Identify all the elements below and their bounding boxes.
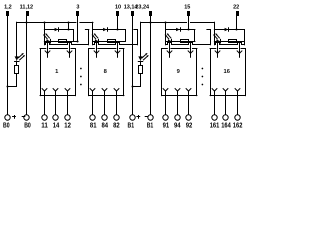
ellipsis dots between modules 1 and 8	[80, 68, 82, 70]
wire relay K8 to terminal 81	[92, 96, 94, 115]
module 1 input box left edge	[44, 30, 46, 45]
relay K8 contact fork 81	[90, 89, 92, 91]
svg-text:11,12: 11,12	[20, 4, 33, 10]
wire pin 3 to module 1 input	[77, 16, 79, 41]
svg-text:91: 91	[163, 123, 170, 130]
terminal circle 164	[223, 115, 228, 120]
wire resistor RP1 to B0+ rail	[8, 74, 17, 87]
module 1 divider wire	[73, 30, 75, 42]
bus A segment	[17, 22, 76, 24]
wire relay K9 to terminal 92	[188, 96, 190, 115]
module 9 input box right edge	[210, 30, 212, 45]
resistor R9	[181, 40, 189, 43]
terminal circle 82	[114, 115, 119, 120]
connector pin 3	[76, 11, 79, 16]
module 9 input box top edge right segment	[207, 29, 210, 31]
module 9 inner wire	[166, 41, 195, 43]
module 1 input box top edge	[44, 29, 73, 31]
terminal circle 162	[235, 115, 240, 120]
module 8 input box bottom edge	[93, 43, 132, 45]
svg-text:84: 84	[102, 123, 109, 130]
relay K9 contact fork 94	[175, 89, 177, 91]
module 8 inner wire	[93, 41, 126, 43]
wire pin 13,14 to terminal B1+	[132, 16, 134, 115]
relay K1 contact fork 12	[65, 89, 67, 91]
module 1 coil plug contact right	[67, 51, 69, 53]
terminal circle 84	[102, 115, 107, 120]
junction bus A / module 1 stub	[44, 22, 46, 24]
relay K9 contact fork 91	[163, 89, 165, 91]
junction module 1 inner wire	[77, 41, 79, 43]
module 9 divider wire	[194, 30, 196, 42]
svg-text:10: 10	[115, 4, 121, 10]
relay K1 contact fork 14	[53, 89, 55, 91]
svg-text:164: 164	[221, 123, 231, 130]
diode D1	[55, 28, 59, 32]
svg-text:162: 162	[233, 123, 243, 130]
terminal circle 92	[186, 115, 191, 120]
wire bus A down to module 8 box	[92, 22, 94, 29]
wire relay K16 to terminal 161	[214, 96, 216, 115]
junction module 8 top edge	[117, 29, 119, 31]
svg-text:92: 92	[186, 123, 193, 130]
wire pin 23,24 to terminal B1-	[150, 16, 152, 115]
module 8 coil wire left	[96, 42, 98, 52]
junction B0+ / indicator chain	[7, 86, 9, 88]
LED 9 (channel indicator)	[168, 39, 172, 43]
wire pin 11,12 to terminal B0-	[26, 16, 28, 115]
wire bus B down to module 16 box	[214, 22, 216, 29]
svg-text:1,2: 1,2	[4, 4, 12, 10]
module 8 coil wire right	[117, 42, 119, 52]
terminal circle 81	[90, 115, 95, 120]
junction bus A / module 1 top edge stub	[68, 22, 70, 24]
module 8 divider wire	[125, 30, 127, 42]
LED PWR1 (supply indicator)	[15, 56, 19, 60]
bus B segment after crossover	[191, 22, 215, 24]
terminal circle 14	[53, 115, 58, 120]
connector pin 22	[236, 11, 239, 16]
svg-text:B0: B0	[24, 123, 31, 130]
module 1 input box top edge right segment	[85, 29, 88, 31]
module 8 input box bottom edge right segment	[133, 44, 137, 46]
wire pin 1,2 to terminal B0+	[7, 16, 9, 115]
terminal circle B1-	[148, 115, 153, 120]
svg-text:94: 94	[174, 123, 181, 130]
svg-text:14: 14	[53, 123, 60, 130]
module 1 coil wire left	[47, 42, 49, 52]
minus sign at B1	[145, 116, 148, 118]
module 1 coil plug contact left	[45, 51, 47, 53]
module 8 coil plug contact right	[115, 51, 117, 53]
svg-text:B1: B1	[147, 123, 154, 130]
connector pin 15	[187, 11, 190, 16]
module 16 input box right edge	[244, 30, 246, 45]
junction B1+ / indicator chain	[132, 86, 134, 88]
bus A segment after crossover	[80, 22, 93, 24]
terminal circle B0-	[24, 115, 29, 120]
terminal circle 161	[212, 115, 217, 120]
wire relay K1 to terminal 12	[67, 96, 69, 115]
module 9 input box left edge	[165, 30, 167, 45]
wire relay K1 to terminal 11	[44, 96, 46, 115]
module 8 input box left edge	[92, 30, 94, 45]
bus B corner down to indicator chain	[140, 22, 142, 56]
resistor R1	[59, 40, 67, 43]
connector pin 13,14	[131, 11, 134, 16]
resistor R16	[229, 40, 237, 43]
junction bus B / B1- wire	[150, 22, 152, 24]
svg-text:23,24: 23,24	[135, 4, 150, 10]
wire resistor RP2 to B1+ rail	[133, 74, 141, 87]
module 16 input box left edge	[214, 30, 216, 45]
wire stub bus A to module 1 top edge	[68, 22, 70, 29]
module 16 coil plug contact right	[237, 51, 239, 53]
module 1 input box right edge	[88, 30, 90, 45]
svg-text:22: 22	[233, 4, 239, 10]
junction bus A / B0- wire	[26, 22, 28, 24]
module 9 input box bottom edge	[166, 43, 211, 45]
svg-text:82: 82	[113, 123, 120, 130]
resistor RP2	[139, 66, 143, 74]
svg-text:11: 11	[41, 123, 48, 130]
svg-text:16: 16	[223, 69, 230, 75]
wire relay K1 to terminal 14	[55, 96, 57, 115]
connector pin 23,24	[149, 11, 152, 16]
bus A corner down to indicator chain	[16, 22, 18, 56]
module 16 coil plug contact left	[215, 51, 217, 53]
wire LED to resistor	[16, 61, 18, 65]
module 9 coil plug contact left	[167, 51, 169, 53]
relay K8 contact fork 82	[114, 89, 116, 91]
module 16 coil wire left	[217, 42, 219, 52]
svg-text:3: 3	[76, 4, 79, 10]
module 1 coil wire right	[69, 42, 71, 52]
module 9 coil wire right	[190, 42, 192, 52]
relay K16 contact fork 164	[223, 89, 225, 91]
junction module 1 top edge	[68, 29, 70, 31]
module 8 input box right edge	[137, 30, 139, 45]
connector pin 1,2	[6, 11, 9, 16]
plus sign at B1	[137, 116, 140, 118]
relay K9 contact fork 92	[186, 89, 188, 91]
module 16 input box top edge	[214, 29, 244, 31]
relay K9 box	[162, 48, 168, 50]
relay K16 contact fork 161	[212, 89, 214, 91]
wire relay K8 to terminal 82	[116, 96, 118, 115]
terminal circle 11	[42, 115, 47, 120]
relay K8 contact fork 84	[102, 89, 104, 91]
wire pin 15 to module 9 top edge	[188, 16, 190, 30]
svg-text:12: 12	[64, 123, 71, 130]
junction module 9 top edge	[188, 29, 190, 31]
plus sign at B0	[13, 116, 16, 118]
connector pin 10	[116, 11, 119, 16]
wire relay K8 to terminal 84	[104, 96, 106, 115]
relay K16 box	[210, 48, 216, 50]
wire relay K9 to terminal 94	[177, 96, 179, 115]
wire bus A to module 1 box corner	[44, 22, 46, 29]
diode D9	[176, 28, 180, 32]
module 9 input box top edge	[166, 29, 195, 31]
svg-text:15: 15	[184, 4, 190, 10]
module 16 inner wire	[214, 41, 244, 43]
svg-text:161: 161	[210, 123, 220, 130]
terminal circle 12	[65, 115, 70, 120]
module 8 input box top edge	[93, 29, 126, 31]
bus B segment	[141, 22, 187, 24]
module 1 input box bottom edge	[45, 43, 89, 45]
terminal circle B0+	[5, 115, 10, 120]
connector pin 11,12	[26, 11, 29, 16]
wire relay K16 to terminal 164	[225, 96, 227, 115]
wire pin 22 to module 16 top edge	[236, 16, 238, 30]
module 16 coil wire right	[239, 42, 241, 52]
svg-text:B1: B1	[128, 123, 135, 130]
terminal circle 94	[175, 115, 180, 120]
terminal circle B1+	[130, 115, 135, 120]
svg-text:81: 81	[90, 123, 97, 130]
minus sign at B0	[22, 116, 25, 118]
ellipsis dots between modules 9 and 16	[202, 68, 204, 70]
wire relay K16 to terminal 162	[237, 96, 239, 115]
module 9 coil wire left	[169, 42, 171, 52]
resistor R8	[108, 40, 116, 43]
relay K1 contact fork 11	[42, 89, 44, 91]
svg-text:B0: B0	[3, 123, 10, 130]
wire pin 10 to module 8 top edge	[117, 16, 119, 30]
LED 16 (channel indicator)	[216, 39, 220, 43]
junction module 16 top edge	[236, 29, 238, 31]
wire relay K9 to terminal 91	[165, 96, 167, 115]
junction bus B / module 9 stub	[165, 22, 167, 24]
diode D8	[103, 28, 107, 32]
module 9 coil plug contact right	[188, 51, 190, 53]
diode D16	[225, 28, 229, 32]
LED PWR2 (supply indicator)	[138, 56, 142, 60]
module 16 input box bottom edge	[215, 43, 245, 45]
module 1 inner wire	[44, 41, 78, 43]
terminal circle 91	[163, 115, 168, 120]
wire LED to resistor	[140, 61, 142, 65]
module 8 input box top edge right segment	[134, 29, 137, 31]
relay K16 contact fork 162	[235, 89, 237, 91]
wire bus B to module 9 box corner	[165, 22, 167, 29]
resistor RP1	[15, 66, 19, 74]
relay K1 box	[40, 48, 46, 50]
module 8 coil plug contact left	[94, 51, 96, 53]
LED 8 (channel indicator)	[95, 39, 99, 43]
LED 1 (channel indicator)	[46, 39, 50, 43]
relay K8 box	[89, 48, 95, 50]
